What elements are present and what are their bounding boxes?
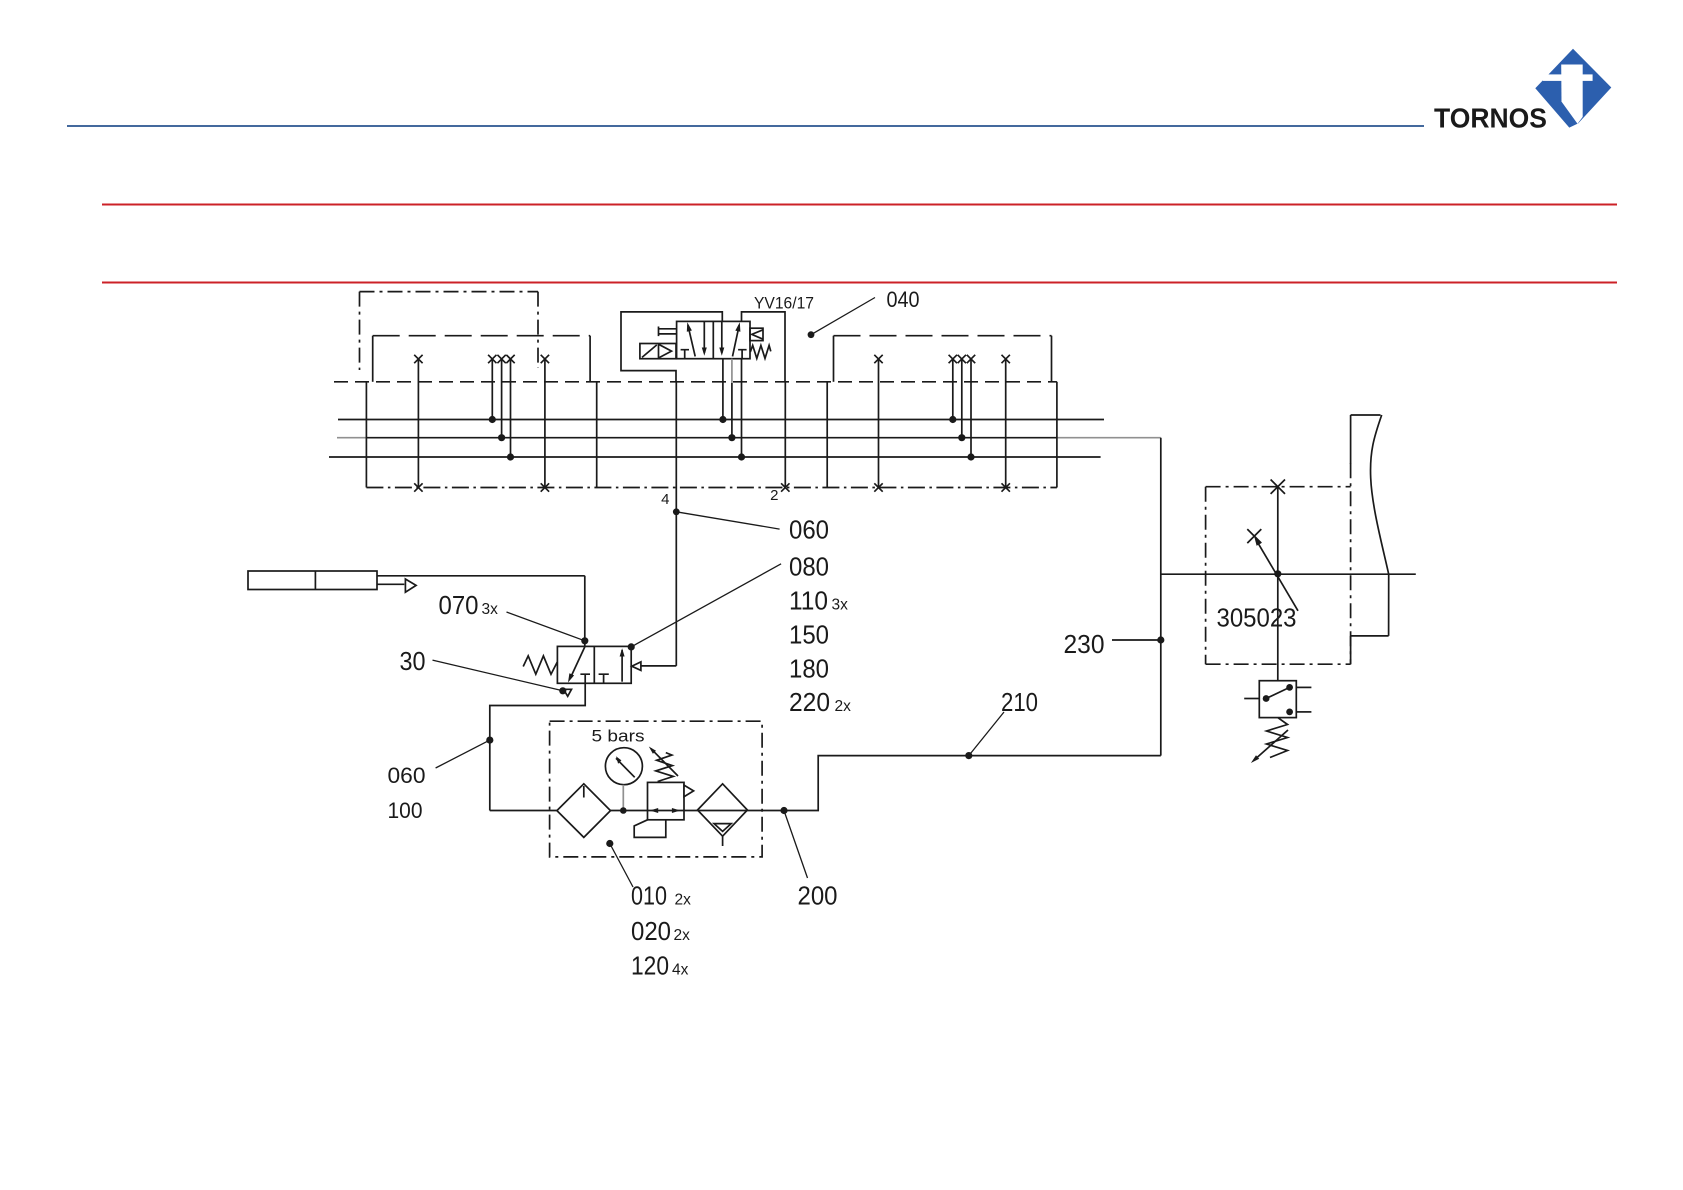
cylinder C1 [248,571,416,592]
svg-text:210: 210 [1001,687,1038,717]
dash-dot box 305023 [1206,463,1351,664]
svg-text:060: 060 [789,515,829,545]
junction dots on buses [489,416,975,461]
pilot triangle [632,662,641,671]
solenoid valve U040 YV16/17 [621,312,785,457]
port line L3 triple to bus2 [501,359,503,438]
right block left edge [826,382,828,488]
valve enclosure left [621,312,722,382]
left dash-dot box [360,292,539,370]
exhaust triangle [564,689,572,696]
red rule 1 [102,204,1617,206]
header rule blue [67,125,1424,127]
leader 060 bottom [436,740,490,768]
3/2 valve V070 [523,646,641,696]
drop wire to bus3 [741,359,743,457]
machine outline [1351,415,1389,664]
port line L2 triple to bus1 [491,359,493,420]
svg-text:30: 30 [400,646,426,676]
node dot 060/100 [486,737,493,744]
svg-text:070: 070 [439,590,479,620]
gauge stem gray [622,785,624,811]
svg-text:3x: 3x [482,601,499,618]
svg-text:020: 020 [631,916,671,946]
left cell flow arrows [688,325,695,356]
valve enclosure right [742,312,786,382]
svg-text:150: 150 [789,620,829,650]
throttle vertical line [1277,487,1279,681]
leader 30 [433,660,563,691]
filter diamond [557,784,611,838]
port line L5 [544,359,546,488]
right upper rect [834,335,1052,337]
svg-text:4: 4 [661,491,669,508]
svg-text:120: 120 [631,951,669,981]
leader 010 [610,844,633,888]
leader 040 [811,298,875,335]
manifold bottom edge dash-dot [366,487,1057,489]
svg-text:2: 2 [770,487,778,504]
regulator flow arrowheads [616,747,788,815]
svg-text:230: 230 [1064,629,1105,659]
svg-text:220: 220 [789,687,830,717]
valve body 5/2 [677,321,750,358]
main flow line [490,810,784,812]
leader 060 top [676,512,779,529]
X on throttle [1247,529,1261,543]
throttle arrowhead [1254,537,1261,546]
pressure switch S1 [1244,681,1311,760]
bus line 2 gray extension right [1057,437,1161,439]
svg-text:100: 100 [388,798,423,823]
svg-text:5 bars: 5 bars [592,728,645,746]
leader 070 [507,612,585,641]
regulator drain pentagon [634,820,666,838]
port line R1 [878,359,880,488]
return spring [750,345,771,358]
node dot 010 [606,840,613,847]
svg-text:YV16/17: YV16/17 [754,294,814,313]
regulator vent triangle [684,785,694,797]
TORNOS logo diamond [1535,49,1611,128]
dash-dot enclosure [550,721,763,857]
regulator box [648,782,685,819]
wire cylinder to valve [377,576,585,647]
left block left edge [365,382,367,488]
port line R5 [1005,359,1007,488]
wire 230 [1112,639,1161,641]
regulator adjust arrow [651,749,678,776]
right assembly 305023 throttle [1161,463,1416,681]
wire air prep out to riser [784,438,1161,811]
bus line 2 gray stub left [337,437,366,439]
port 4 line [641,382,676,666]
svg-text:305023: 305023 [1217,603,1297,633]
left upper rect [373,335,590,337]
up arrow right cell [621,650,623,682]
wire valve bottom to air prep [490,683,585,810]
regulator spring [656,753,674,782]
drop wire to bus1 [722,359,724,420]
bus line 1 (top manifold rail) [338,419,1104,421]
X marks bottom row [414,483,1010,491]
lubricator diamond [698,784,748,836]
leader 080 [631,564,781,647]
flow diagonal [570,646,585,678]
port line L1 [417,359,419,488]
node dot 230 [1157,636,1164,643]
svg-text:2x: 2x [835,698,852,715]
node dot throttle [1274,570,1281,577]
riser wire right [1160,438,1162,756]
air preparation unit 010/020/120 [490,721,784,857]
leader 200 [785,814,808,879]
gauge circle [605,748,642,785]
right cell flow arrows [721,322,723,353]
valve arrowheads [687,322,741,356]
port line L4 triple to bus3 [510,359,512,457]
manifold top edge dashed [334,381,1057,383]
right block right edge [1056,382,1058,488]
solenoid with pilot box [640,344,676,359]
blocked port T left [681,350,689,359]
svg-text:TORNOS: TORNOS [1434,103,1547,134]
T blocks [580,674,590,683]
svg-text:2x: 2x [674,927,691,944]
blocked port T right [738,350,747,359]
X on box top [1271,480,1285,494]
gauge needle [616,758,635,777]
bus line 3 (bottom manifold rail) [329,456,1101,458]
svg-text:200: 200 [798,881,838,911]
pilot port symbol [659,327,677,337]
switch spring [1267,718,1288,758]
main horizontal wire [1161,573,1416,575]
svg-text:110: 110 [789,586,828,616]
spring left [523,656,557,674]
node dot port4 [673,508,680,515]
throttle diagonal arrow [1257,541,1298,611]
left block right edge [596,382,598,488]
drop wire to bus2 gray upper [731,359,733,383]
port line R3 triple to bus2 [961,359,963,438]
port 2 line [784,382,786,488]
svg-text:2x: 2x [675,892,692,909]
drop wire to bus2 [731,383,733,438]
svg-text:080: 080 [789,552,829,582]
rod arrow open [405,579,416,592]
svg-text:180: 180 [789,654,829,684]
port line R2 triple to bus1 [952,359,954,420]
solenoid coil right box [750,328,763,340]
svg-text:3x: 3x [832,597,849,614]
svg-text:040: 040 [887,287,920,312]
node dot 210 [965,752,972,759]
bus line 2 (middle manifold rail) [366,437,1057,439]
leader 210 [969,712,1004,756]
spring adjust arrow [1255,730,1289,760]
svg-text:4x: 4x [672,962,689,979]
svg-text:060: 060 [388,763,426,788]
X marks top row [414,355,1010,363]
red rule 2 [102,282,1617,284]
port line R4 triple to bus3 [970,359,972,457]
svg-text:010: 010 [631,881,667,911]
